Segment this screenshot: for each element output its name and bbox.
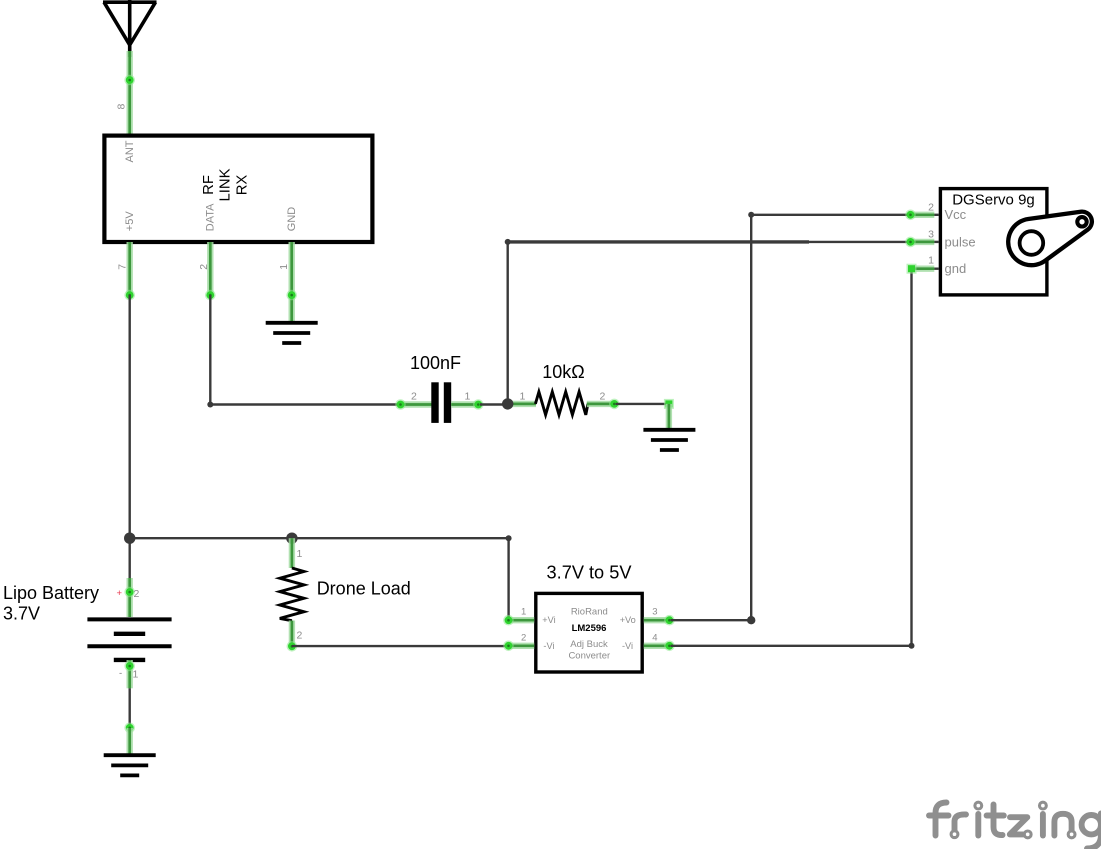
battery BT1 label Lipo Battery 3.7V — [3, 583, 99, 624]
wire -Vi to servo gnd riser — [671, 645, 912, 647]
ground symbol at R1 — [643, 430, 695, 450]
resistor R1 zigzag — [535, 392, 588, 415]
U2 pin 2 (-Vi) — [508, 643, 535, 649]
svg-text:8: 8 — [116, 104, 128, 110]
svg-text:3.7V: 3.7V — [3, 604, 40, 624]
junction drone load node — [286, 533, 297, 544]
M1 pin 1 (gnd) stub — [933, 268, 939, 270]
svg-text:1: 1 — [928, 255, 934, 267]
RF receiver module U1 RF LINK RX — [104, 136, 372, 242]
svg-text:-Vi: -Vi — [622, 641, 633, 651]
bendpoint Vcc wire — [748, 212, 754, 218]
svg-text:7: 7 — [116, 264, 128, 270]
pin 7 (+5V) of U1 — [126, 242, 132, 295]
svg-text:3: 3 — [652, 606, 657, 617]
svg-text:2: 2 — [297, 630, 303, 642]
ground symbol at U1 GND — [266, 323, 318, 343]
svg-text:1: 1 — [133, 669, 139, 681]
svg-text:ANT: ANT — [124, 140, 136, 162]
svg-text:DGServo 9g: DGServo 9g — [952, 192, 1035, 209]
wire to servo pulse pin segment A — [508, 240, 809, 243]
U2 pin 2 endpoint — [503, 641, 514, 652]
bendpoint gnd wire — [909, 643, 915, 649]
wire down to ground — [666, 404, 672, 430]
bendpoint pulse wire — [505, 239, 511, 245]
wire to servo pulse pin segment B — [809, 241, 911, 243]
fritzing watermark logo — [929, 802, 1101, 848]
C1 pin 2 endpoint — [395, 399, 406, 410]
U2 pin 3 (+Vo) — [644, 617, 671, 623]
svg-text:RF: RF — [201, 175, 217, 195]
wire battery negative to ground — [128, 688, 130, 728]
buck converter module U2 RioRand LM2596 — [536, 593, 642, 672]
junction node C1/R1/pulse — [502, 398, 513, 409]
wire R1 to ground — [616, 403, 669, 405]
svg-text:Adj Buck: Adj Buck — [570, 639, 608, 650]
wire R2 to buck -Vi — [292, 645, 508, 647]
svg-text:2: 2 — [928, 202, 934, 214]
wire +Vo riser vertical — [750, 215, 752, 620]
pin 2 (DATA) of U1 — [207, 242, 213, 295]
svg-text:2: 2 — [198, 264, 210, 270]
wire antenna feed to RF RX ANT pin — [126, 51, 132, 135]
resistor R2 pin 2 — [289, 621, 295, 647]
svg-text:1: 1 — [521, 607, 526, 618]
svg-text:-: - — [119, 668, 122, 679]
wire DATA vertical segment — [209, 295, 211, 404]
svg-text:Lipo Battery: Lipo Battery — [3, 583, 99, 603]
svg-text:LINK: LINK — [217, 168, 233, 201]
ground wire endpoint — [124, 723, 135, 734]
svg-text:1: 1 — [278, 264, 290, 270]
svg-text:1: 1 — [520, 391, 526, 403]
svg-text:DATA: DATA — [204, 203, 216, 231]
svg-text:1: 1 — [297, 548, 303, 560]
svg-text:+Vo: +Vo — [620, 615, 636, 625]
battery BT1 pin 1 (-) — [126, 660, 132, 688]
M1 pin 3 (pulse) — [909, 239, 934, 245]
svg-text:+5V: +5V — [124, 211, 136, 232]
svg-text:Drone Load: Drone Load — [317, 579, 411, 599]
junction battery positive node — [124, 533, 135, 544]
svg-text:1: 1 — [465, 391, 471, 403]
svg-text:+Vi: +Vi — [542, 615, 555, 625]
M1 pin 3 endpoint — [905, 237, 916, 248]
bendpoint DATA wire — [207, 402, 213, 408]
svg-text:LM2596: LM2596 — [572, 623, 607, 634]
svg-text:GND: GND — [286, 207, 298, 232]
wire battery bus horizontal — [130, 537, 509, 539]
svg-text:2: 2 — [600, 391, 606, 403]
svg-text:Converter: Converter — [568, 651, 610, 662]
svg-text:2: 2 — [411, 391, 417, 403]
battery BT1 pin 2 (+) — [126, 578, 132, 617]
ground symbol at battery — [104, 755, 156, 775]
resistor R1 pin 1 — [508, 401, 536, 407]
servo module M1 DGServo 9g — [940, 189, 1047, 295]
wire bus down to buck +Vi — [507, 538, 509, 620]
svg-text:3.7V to 5V: 3.7V to 5V — [547, 563, 633, 583]
wire +5V rail down to battery bus — [128, 295, 130, 538]
M1 pin 2 (Vcc) stub — [933, 214, 939, 216]
svg-text:3: 3 — [928, 229, 934, 241]
BT1 pin 1 endpoint — [124, 661, 135, 672]
svg-text:4: 4 — [652, 632, 657, 643]
wire to servo Vcc pin — [751, 214, 910, 216]
svg-text:RioRand: RioRand — [571, 607, 608, 618]
bendpoint R1 ground wire — [664, 399, 674, 409]
M1 pin 3 (pulse) stub — [933, 241, 939, 243]
C1 pin 1 endpoint — [473, 399, 484, 410]
pin 1 endpoint — [286, 290, 297, 301]
capacitor C1 pin 1 — [451, 401, 480, 407]
wire DATA to capacitor C1 — [210, 403, 400, 405]
pin 7 endpoint — [124, 290, 135, 301]
svg-text:gnd: gnd — [945, 261, 967, 276]
svg-text:RX: RX — [234, 175, 250, 196]
resistor R2 zigzag — [280, 568, 304, 621]
wire node to servo pulse vertical — [507, 242, 509, 404]
BT1 pin 2 endpoint — [124, 587, 135, 598]
svg-text:10kΩ: 10kΩ — [542, 362, 584, 382]
M1 pin 1 endpoint — [907, 264, 917, 274]
svg-text:+: + — [117, 588, 123, 599]
capacitor C1 plates — [431, 382, 451, 423]
svg-text:Vcc: Vcc — [945, 207, 967, 222]
svg-text:2: 2 — [134, 588, 140, 600]
resistor R1 pin 2 — [587, 401, 616, 407]
U2 pin 1 endpoint — [503, 615, 514, 626]
svg-text:2: 2 — [521, 633, 526, 644]
resistor R2 pin 1 — [289, 538, 295, 568]
wire C1 to node — [480, 403, 508, 405]
junction antenna pin endpoint — [124, 75, 135, 86]
capacitor C1 pin 2 — [401, 401, 432, 407]
pin 2 endpoint — [205, 290, 216, 301]
U2 pin 1 (+Vi) — [508, 617, 535, 623]
pin 1 (GND) of U1 — [289, 242, 295, 322]
M1 servo horn icon — [1008, 212, 1092, 266]
bendpoint bus to buck converter — [506, 535, 512, 541]
U2 pin 3 endpoint — [664, 615, 675, 626]
svg-text:-Vi: -Vi — [543, 641, 554, 651]
M1 pin 2 (Vcc) — [909, 212, 934, 218]
svg-text:pulse: pulse — [945, 234, 976, 249]
M1 pin 1 (gnd) — [909, 266, 934, 272]
antenna AE1 — [103, 0, 157, 57]
ground pin wire — [126, 728, 132, 755]
R2 pin 2 endpoint — [287, 641, 298, 652]
wire +Vo to servo Vcc riser — [671, 619, 752, 621]
bendpoint +Vo wire — [747, 616, 755, 624]
U2 pin 4 (-Vi) — [644, 643, 671, 649]
wire servo gnd riser vertical — [910, 269, 912, 646]
battery BT1 plates — [87, 619, 171, 660]
U2 pin 4 endpoint — [664, 641, 675, 652]
svg-text:100nF: 100nF — [410, 353, 461, 373]
M1 pin 2 endpoint — [905, 210, 916, 221]
wire bus to battery positive — [128, 538, 130, 578]
R1 pin 2 endpoint — [609, 399, 620, 410]
